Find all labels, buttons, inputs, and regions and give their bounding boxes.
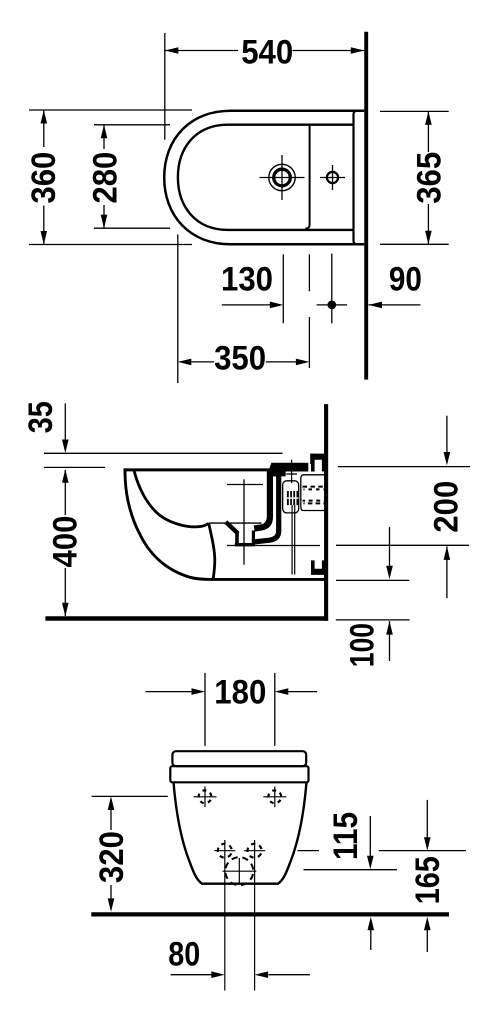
floor (rear view, thick) xyxy=(91,912,449,916)
back riser to bracket xyxy=(310,454,313,465)
faucet hole: outer circle xyxy=(269,164,295,190)
dimension 35 xyxy=(64,403,66,440)
upper mounting bracket xyxy=(311,454,325,472)
dimension 280 xyxy=(94,125,170,228)
svg-text:90: 90 xyxy=(389,261,422,299)
rim cap upper band xyxy=(172,751,306,766)
lower bolt hole left xyxy=(214,840,235,991)
rear view reference lines xyxy=(92,796,466,869)
drain pipe left wall xyxy=(254,476,270,529)
dimension 180 xyxy=(145,673,317,746)
bidet inner rim outline (plan) xyxy=(178,125,354,230)
115 ref line xyxy=(304,869,397,871)
bowl back slant edge xyxy=(209,523,215,578)
svg-text:360: 360 xyxy=(25,152,63,204)
dimension 115 xyxy=(369,816,372,950)
svg-text:80: 80 xyxy=(168,935,200,973)
svg-text:540: 540 xyxy=(241,33,293,71)
rim cap lower band xyxy=(170,766,308,782)
floor (side, thick horizontal) xyxy=(45,616,328,621)
shelf line xyxy=(209,522,262,524)
svg-text:200: 200 xyxy=(428,481,466,533)
dimension 365 xyxy=(380,111,449,244)
lower bolt hole right xyxy=(244,840,265,991)
svg-text:100: 100 xyxy=(344,623,382,667)
dimension 350 xyxy=(178,235,310,384)
hidden water channel block with dashes xyxy=(301,475,326,511)
floor extension right xyxy=(336,619,410,621)
svg-text:350: 350 xyxy=(214,340,266,378)
side view reference lines xyxy=(44,453,470,620)
svg-text:115: 115 xyxy=(327,812,365,860)
bowl interior curve xyxy=(134,471,209,527)
svg-text:180: 180 xyxy=(214,673,266,711)
small hole crosshair xyxy=(320,177,345,179)
dimension 360 xyxy=(29,110,192,245)
bidet outer outline (plan) xyxy=(164,111,364,245)
deck separation line xyxy=(305,126,309,229)
320 ref line xyxy=(92,795,168,797)
svg-text:35: 35 xyxy=(22,401,60,433)
bidet rim top line xyxy=(125,468,270,471)
drain pipe right wall xyxy=(254,476,279,542)
bidet bottom extension xyxy=(336,579,409,581)
35 ref line xyxy=(44,452,283,454)
faucet hole: thick inner circle xyxy=(274,169,291,186)
svg-text:130: 130 xyxy=(221,261,273,299)
svg-text:320: 320 xyxy=(93,831,131,883)
fixing rod double line xyxy=(291,505,293,574)
wall (side, thick vertical) xyxy=(324,404,328,621)
tap body rectangle xyxy=(283,481,299,513)
165 ref line xyxy=(298,850,320,852)
outlet funnel xyxy=(226,522,255,545)
upper bolt hole right xyxy=(263,787,286,808)
upper bolt hole left xyxy=(194,787,217,808)
dimension 200 xyxy=(446,416,448,599)
dimension 540 xyxy=(165,33,364,140)
back ledge edge line xyxy=(354,111,358,245)
dimension 100 xyxy=(389,527,391,661)
lower mounting bracket xyxy=(311,560,325,575)
dimension 320 xyxy=(110,809,112,899)
dimension 90 xyxy=(369,304,421,306)
small hole circle xyxy=(327,172,338,183)
small hole centre extension with dot xyxy=(317,254,348,324)
dimension 400 xyxy=(64,470,66,616)
tap threaded block xyxy=(287,491,299,505)
svg-text:400: 400 xyxy=(47,516,85,568)
bidet front face and underside xyxy=(125,469,326,580)
svg-text:165: 165 xyxy=(409,856,447,904)
dimension 80 xyxy=(171,974,310,976)
body outline xyxy=(174,782,307,883)
tap platform solid block xyxy=(267,463,309,477)
svg-text:280: 280 xyxy=(87,152,125,204)
dimension 130 xyxy=(222,254,283,323)
drain level extension right xyxy=(336,544,469,546)
wall (plan, thick vertical) xyxy=(364,32,368,380)
drain hole dashed circle xyxy=(223,855,257,888)
faucet crosshair xyxy=(260,177,305,179)
svg-text:365: 365 xyxy=(410,152,448,204)
rim top extension right xyxy=(338,466,470,468)
dimension 165 xyxy=(426,800,428,952)
drain axis crosshair xyxy=(243,479,245,564)
rim top extension left xyxy=(44,466,105,468)
tap hole crosshair tick xyxy=(286,473,297,475)
